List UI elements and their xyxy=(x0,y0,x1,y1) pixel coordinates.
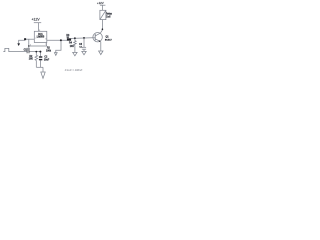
svg-text:LM555: LM555 xyxy=(37,36,45,39)
svg-text:+12V: +12V xyxy=(97,1,104,5)
svg-text:3: 3 xyxy=(45,39,46,41)
svg-text:10K: 10K xyxy=(29,59,34,61)
svg-text:0.1uF = 100nF: 0.1uF = 100nF xyxy=(65,68,83,72)
svg-text:BC517: BC517 xyxy=(105,40,113,42)
svg-text:2: 2 xyxy=(35,38,36,40)
svg-text:100k: 100k xyxy=(46,50,52,52)
svg-text:7: 7 xyxy=(45,44,46,46)
svg-text:Relay: Relay xyxy=(106,14,113,16)
svg-text:Coil: Coil xyxy=(106,16,111,18)
svg-text:10uF: 10uF xyxy=(44,59,50,61)
svg-text:+12V: +12V xyxy=(32,18,41,22)
svg-text:8: 8 xyxy=(39,30,40,32)
svg-text:10K: 10K xyxy=(70,46,75,48)
svg-text:6: 6 xyxy=(30,44,31,46)
